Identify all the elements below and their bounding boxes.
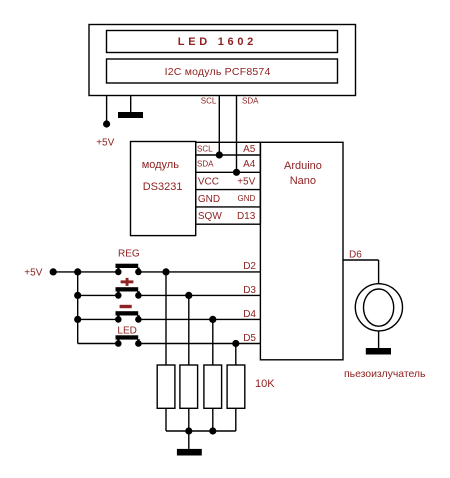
svg-text:D3: D3 bbox=[243, 285, 256, 296]
svg-text:SQW: SQW bbox=[198, 211, 222, 222]
svg-text:SCL: SCL bbox=[201, 97, 217, 106]
svg-text:DS3231: DS3231 bbox=[143, 181, 183, 193]
svg-text:I2C модуль PCF8574: I2C модуль PCF8574 bbox=[165, 66, 271, 78]
svg-text:REG: REG bbox=[118, 248, 140, 259]
svg-text:D5: D5 bbox=[243, 333, 256, 344]
svg-text:+5V: +5V bbox=[237, 177, 255, 188]
svg-text:+5V: +5V bbox=[24, 267, 42, 278]
svg-text:D4: D4 bbox=[243, 309, 256, 320]
svg-text:GND: GND bbox=[238, 194, 256, 203]
svg-text:A4: A4 bbox=[243, 159, 256, 170]
svg-text:Arduino: Arduino bbox=[284, 160, 322, 172]
svg-text:LED: LED bbox=[117, 325, 136, 336]
svg-text:модуль: модуль bbox=[142, 159, 180, 171]
svg-text:GND: GND bbox=[198, 194, 220, 205]
svg-text:A5: A5 bbox=[243, 144, 256, 155]
svg-text:SDA: SDA bbox=[197, 160, 214, 169]
svg-text:SDA: SDA bbox=[242, 97, 259, 106]
svg-text:+5V: +5V bbox=[96, 137, 114, 148]
svg-text:SCL: SCL bbox=[197, 144, 213, 153]
svg-text:VCC: VCC bbox=[198, 177, 219, 188]
svg-text:Nano: Nano bbox=[290, 175, 316, 187]
svg-text:D2: D2 bbox=[243, 261, 256, 272]
svg-text:пьезоизлучатель: пьезоизлучатель bbox=[344, 368, 426, 380]
svg-text:10K: 10K bbox=[255, 378, 275, 390]
svg-text:D6: D6 bbox=[349, 249, 362, 260]
svg-text:D13: D13 bbox=[237, 211, 256, 222]
